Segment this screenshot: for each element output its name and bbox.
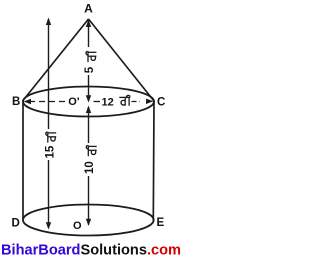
cone left slant wire bbox=[23, 19, 89, 101]
value label 12 mee bbox=[102, 95, 131, 108]
value label 10 mee bbox=[84, 145, 97, 174]
svg-text:10: 10 bbox=[84, 161, 96, 174]
value label 5 mee bbox=[84, 51, 96, 73]
svg-text:15: 15 bbox=[45, 145, 57, 158]
cone height arrow 5 mee bbox=[81, 20, 97, 103]
svg-text:C: C bbox=[157, 97, 165, 109]
cylinder right wall wire bbox=[152, 101, 155, 221]
arrowhead at C bbox=[146, 99, 154, 104]
svg-text:12: 12 bbox=[102, 97, 114, 109]
svg-text:D: D bbox=[12, 218, 20, 230]
total height arrow 15 mee bbox=[41, 18, 57, 230]
arrowhead at B bbox=[24, 99, 32, 104]
svg-text:E: E bbox=[157, 217, 165, 229]
cone right slant wire bbox=[89, 19, 155, 101]
value label 15 mee bbox=[45, 132, 57, 159]
cylinder left wall wire bbox=[22, 101, 24, 220]
svg-text:B: B bbox=[12, 96, 20, 108]
bottom ellipse bbox=[23, 205, 154, 236]
diameter dashed line B to C bbox=[29, 101, 140, 103]
svg-text:5: 5 bbox=[84, 66, 96, 73]
svg-text:O: O bbox=[73, 220, 82, 232]
top ellipse bbox=[23, 87, 154, 117]
svg-text:O': O' bbox=[68, 96, 80, 108]
cylinder height arrow 10 mee bbox=[81, 106, 97, 227]
svg-text:BiharBoardSolutions.com: BiharBoardSolutions.com bbox=[1, 243, 181, 259]
svg-text:A: A bbox=[84, 2, 93, 16]
